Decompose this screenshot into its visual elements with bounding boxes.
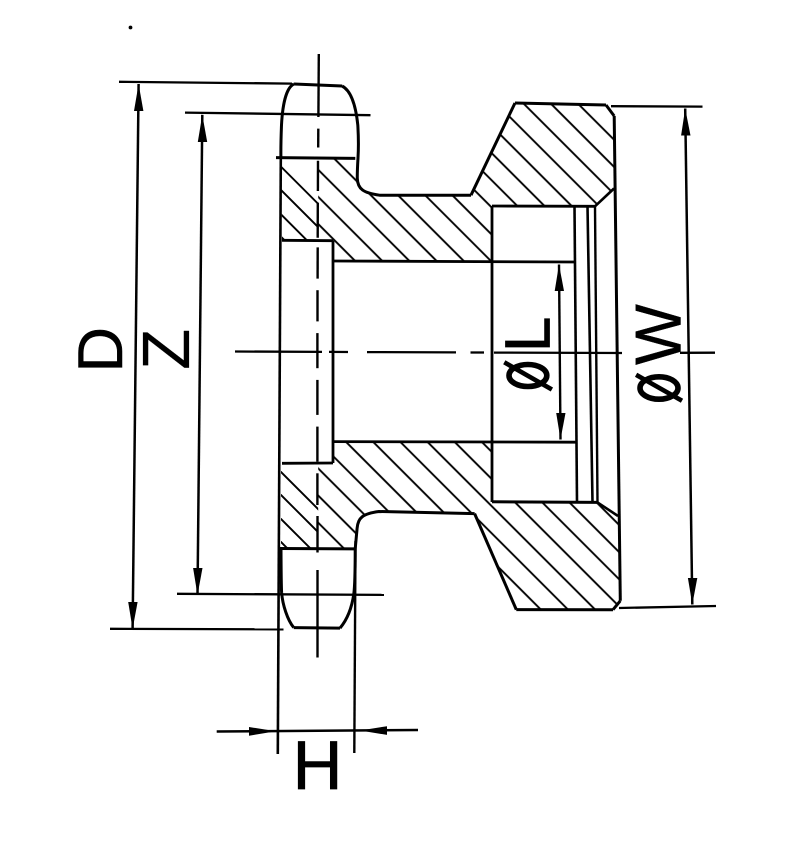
hub right edge — [614, 116, 620, 601]
dimension OL arrow down — [556, 413, 565, 440]
tooth top: tip edge — [294, 84, 342, 86]
dimension OW arrow down — [688, 578, 697, 605]
dimension H arrow left-pointing — [360, 726, 387, 735]
dimension H arrow right-pointing — [249, 727, 276, 736]
dimension OL arrow up — [555, 265, 564, 292]
dimension OW extension line top — [611, 105, 703, 108]
tooth bottom: left flank — [281, 549, 294, 628]
inner edge line 2 — [588, 206, 593, 502]
dimension D extension line bottom — [110, 628, 284, 631]
tooth top: left flank — [281, 84, 294, 158]
bore step edge — [491, 206, 494, 502]
svg-text:L: L — [492, 317, 564, 353]
stray dot top-left — [129, 26, 133, 30]
hub left slope upper — [471, 103, 515, 195]
tooth top: right flank and fillet into web — [342, 86, 471, 195]
tooth bottom: tip edge — [294, 626, 340, 630]
counterbore bottom line — [492, 500, 598, 504]
chamfer root edge — [595, 206, 598, 502]
dimension Z extension line bottom — [177, 594, 384, 595]
dimension OW line — [685, 109, 692, 605]
hub top right chamfer — [606, 105, 614, 116]
hatched section lower region — [318, 442, 620, 610]
hub top edge — [515, 103, 606, 105]
bore end face edge — [575, 206, 578, 502]
dimension D arrow up — [134, 84, 143, 111]
tooth bottom: root line — [279, 547, 356, 550]
svg-text:W: W — [623, 304, 695, 365]
hub bottom right chamfer — [613, 601, 620, 610]
dimension H line — [217, 730, 418, 732]
svg-text:H: H — [293, 727, 343, 804]
dimension OL line — [559, 265, 561, 440]
tooth bottom: right flank and fillet into web — [340, 512, 475, 629]
hub bottom edge — [516, 608, 613, 611]
svg-text:Z: Z — [129, 329, 204, 370]
dimension D line — [133, 84, 139, 629]
tooth top: root line — [276, 156, 355, 160]
dimension D extension line top — [119, 82, 292, 84]
plate left edge / H extension left — [278, 158, 281, 754]
dimension OW arrow up — [681, 109, 690, 136]
dimension Z extension line top — [185, 113, 371, 116]
bore top line — [333, 261, 576, 262]
label OL: diameter symbol slash — [504, 362, 552, 389]
label OW: diameter symbol ellipse — [640, 377, 678, 399]
hatched section upper region — [318, 103, 614, 262]
label OL: diameter symbol ellipse — [509, 365, 547, 387]
hub left slope lower — [475, 514, 517, 610]
dimension OW extension line bottom — [619, 606, 716, 608]
svg-text:D: D — [66, 327, 136, 373]
dimension D arrow down — [128, 602, 137, 629]
inner chamfer bottom — [598, 502, 619, 516]
dimension Z arrow down — [193, 568, 202, 595]
bore bottom line — [333, 440, 576, 443]
horizontal centerline — [235, 352, 715, 354]
H extension right — [354, 541, 355, 753]
counterbore top line — [492, 205, 595, 208]
recess rectangle bottom edge — [282, 462, 333, 465]
label OW: diameter symbol slash — [636, 375, 682, 401]
dimension Z arrow up — [198, 115, 207, 142]
inner chamfer top — [595, 189, 614, 207]
dimension Z line — [198, 115, 203, 595]
recess rectangle top edge — [282, 239, 333, 242]
recess rectangle right edge — [332, 241, 335, 464]
tooth vertical centerline — [317, 54, 318, 658]
